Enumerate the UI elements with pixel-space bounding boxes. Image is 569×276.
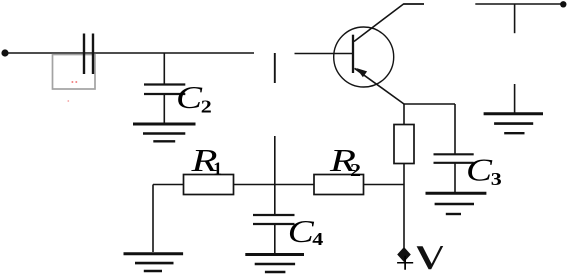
transistor Q1 (PNP) [334,27,394,87]
svg-text:C: C [176,79,203,115]
resistor (vertical, unlabeled) [394,125,414,164]
ground (bottom-left) [124,252,184,255]
wire: R1 to R2 [234,184,315,186]
resistor R1 [184,175,234,195]
crystal box X1 (gray) [53,55,96,90]
wire: R2 to emitter branch [364,184,405,186]
ground (below C4) [245,253,304,256]
svg-text:+: + [395,246,415,276]
capacitor C2 [144,83,185,85]
capacitor C3 [434,153,474,155]
wire: break to base [295,53,354,55]
svg-text:3: 3 [491,169,502,189]
input terminal dot [1,49,8,56]
wire: top-right with terminal [475,3,564,5]
wire: emitter node to C3 branch [404,103,455,105]
wire: C3 stem [454,104,456,154]
+V terminal diamond [397,247,411,262]
wire: input to break [5,52,254,54]
svg-text:4: 4 [312,229,323,249]
svg-text:2: 2 [350,160,361,180]
wire: collector top [404,3,425,5]
wire: R1 left to ground [153,184,184,186]
resistor R2 [314,175,364,195]
svg-text:2: 2 [201,97,212,117]
capacitor C4 [253,214,295,216]
ground (below C3) [426,192,487,195]
wire: resistor to +V [403,164,405,249]
capacitor C1 plates (unlabeled series cap) [83,34,85,75]
broken stub at wire gap [274,53,276,83]
svg-text:C: C [466,151,493,187]
svg-text:C: C [288,213,315,249]
svg-text:1: 1 [213,159,222,179]
ground (top-right) [514,84,516,113]
ground (below C2) [133,123,196,126]
node: C2 tap [163,53,165,84]
wire: middle vertical to C4 [274,136,276,215]
